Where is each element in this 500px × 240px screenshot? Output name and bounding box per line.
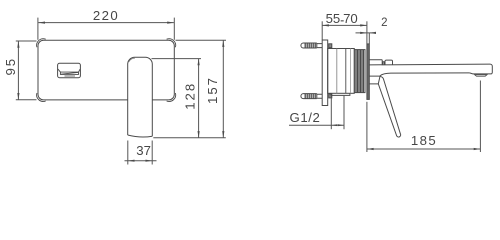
dim 220 extension left [37, 18, 39, 40]
dim 55-70 extension left (flange front face) [321, 21, 323, 39]
corner fillet arc bottom-right [167, 93, 176, 101]
spout outlet box on plate [58, 63, 81, 77]
small groove block [383, 62, 384, 65]
aerator under spout tip [475, 75, 487, 77]
dim 37 extension left [127, 141, 129, 165]
dim 95 extension bottom [16, 99, 37, 101]
outlet slot diagonal [61, 72, 78, 74]
svg-text:70: 70 [343, 11, 358, 26]
outlet slot [58, 69, 80, 72]
outlet shadow [65, 75, 76, 77]
dim 220 extension right [173, 18, 175, 40]
handle hub [369, 76, 380, 84]
G1/2 leader underline [289, 124, 344, 126]
dim 55-70 arrows [322, 24, 367, 26]
handle bottom arc [128, 135, 153, 137]
dim 95 line [17, 41, 19, 100]
handle bar (front view), plate edge interrupted behind [128, 57, 153, 136]
bottom stud threaded section [301, 94, 317, 99]
body lower lip [331, 93, 350, 95]
bottom stud nub behind flange [329, 94, 332, 98]
dim 37 line [125, 160, 157, 162]
svg-text:95: 95 [3, 57, 18, 76]
body internal line 1 [336, 49, 338, 94]
corner fillet arc top-left [37, 39, 46, 47]
G1/2 small dim extension left [330, 96, 332, 129]
spout bottom edge [380, 73, 470, 76]
corner fillet arc top-right [167, 39, 176, 47]
svg-text:2: 2 [381, 17, 389, 29]
dim 157 arrows [222, 40, 224, 138]
dim 37 extension right [151, 141, 153, 165]
top stud nub behind flange [329, 44, 332, 48]
dim 2 extension right (escutcheon back face) [368, 33, 370, 44]
svg-text:55: 55 [326, 11, 341, 26]
svg-text:G1/2: G1/2 [290, 110, 321, 125]
svg-text:185: 185 [411, 133, 437, 148]
corner fillet arc bottom-left [37, 93, 46, 101]
valve body block [328, 49, 355, 94]
svg-text:128: 128 [183, 82, 198, 110]
handle lever [378, 76, 400, 137]
bottom stud plain section [317, 94, 322, 99]
dim 37 arrows [128, 160, 152, 162]
extension line plate top right (for 157) [176, 39, 227, 41]
dim 55-70 extension right (escutcheon front face) [366, 21, 368, 43]
svg-text:220: 220 [93, 8, 119, 23]
dim 185 extension left (below escutcheon) [366, 102, 368, 152]
dim 220 line [38, 22, 174, 24]
dim 2 line [356, 32, 374, 34]
dim 2 arrows [360, 32, 376, 34]
spout supply pipe top line [369, 60, 382, 65]
body internal line 2 [345, 49, 347, 94]
svg-text:37: 37 [136, 143, 151, 158]
threaded rib section [354, 50, 365, 93]
dim 95 extension top [16, 40, 37, 42]
extension line handle bottom (for 128/157) [153, 137, 226, 139]
spout body top edge and tip [369, 64, 492, 74]
G1/2 small dim arrows [331, 124, 344, 126]
svg-text:157: 157 [205, 76, 220, 104]
dim 185 line [367, 148, 481, 150]
top stud plain section [317, 43, 322, 48]
dim 95 arrows [17, 41, 19, 100]
G1/2 small dim extension right [343, 96, 345, 129]
dim 55-70 line [322, 24, 367, 26]
wall plate (front view) [38, 40, 174, 100]
dim 157 line [222, 40, 224, 138]
top stud threaded section [301, 43, 317, 48]
body internal line 3 [350, 49, 352, 94]
dim 185 extension right (below spout tip) [479, 81, 481, 153]
cartridge cap box [385, 60, 393, 65]
extension line handle top (for 128) [152, 58, 202, 60]
dim 220 arrows [38, 22, 174, 24]
handle inner dome line [129, 58, 135, 62]
mounting flange plate [322, 40, 328, 106]
dim 128 arrows [198, 59, 200, 138]
dim 185 arrows [367, 148, 481, 150]
dim 128 line [198, 59, 200, 138]
dash between 55 and 70 [341, 20, 344, 21]
escutcheon wall plate (edge view) [367, 44, 369, 100]
